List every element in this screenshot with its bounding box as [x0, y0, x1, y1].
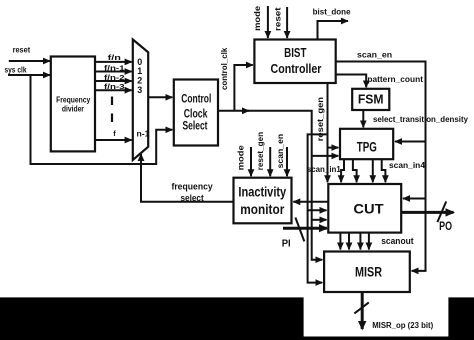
- wire mode stub into Inactivity monitor: [250, 147, 252, 176]
- redaction strip bottom: [0, 337, 474, 340]
- wire reset_gen branch left rail: [308, 134, 328, 282]
- wire CUT tap to Inactivity monitor: [293, 201, 328, 203]
- svg-text:CUT: CUT: [353, 201, 384, 217]
- svg-text:select_transition_density: select_transition_density: [373, 114, 468, 124]
- svg-text:reset_gen: reset_gen: [255, 132, 265, 170]
- wire reset rail branch to CUT: [308, 209, 327, 211]
- svg-text:f/n: f/n: [108, 53, 122, 62]
- svg-text:f/n-3: f/n-3: [104, 82, 125, 91]
- svg-text:mode: mode: [236, 145, 246, 170]
- wire control_clk branch to CUT: [312, 219, 327, 221]
- wire PI bus: [283, 227, 327, 230]
- block Inactivity monitor: [234, 178, 292, 224]
- svg-text:bist_done: bist_done: [313, 7, 351, 17]
- svg-text:Select: Select: [183, 119, 208, 133]
- wire f/n-3: [95, 89, 132, 91]
- svg-text:Inactivity: Inactivity: [238, 184, 286, 199]
- svg-text:MISR_op (23 bit): MISR_op (23 bit): [372, 320, 433, 330]
- wire FSM to TPG select_transition_density: [362, 110, 364, 127]
- wire f: [95, 139, 132, 141]
- wire scan_en stub into Inactivity monitor: [286, 147, 288, 176]
- wire f/n: [95, 61, 132, 63]
- block MISR: [324, 252, 410, 293]
- wire TPG scan chain 1: [341, 159, 344, 182]
- wire mux output to Control Clock Select: [148, 96, 172, 98]
- wire scanout chain 3: [359, 233, 361, 250]
- dashed continuation line: [111, 97, 113, 126]
- wire MISR_op output bus: [361, 292, 364, 329]
- multiplexer MUX: [133, 40, 150, 161]
- block FSM: [352, 89, 389, 110]
- wire TPG scan chain 3: [372, 159, 374, 182]
- svg-text:Control: Control: [181, 92, 211, 106]
- svg-text:MISR: MISR: [355, 264, 382, 279]
- wire scan_en branch to TPG: [395, 141, 426, 143]
- wire scanout chain 1: [339, 233, 341, 250]
- svg-text:pattern_count: pattern_count: [367, 74, 423, 84]
- block Frequency divider: [51, 57, 95, 152]
- svg-text:control_clk: control_clk: [219, 47, 229, 90]
- svg-text:scan_in4: scan_in4: [389, 161, 426, 170]
- svg-text:scan_en: scan_en: [357, 50, 392, 60]
- wire control_clk branch to TPG: [312, 155, 339, 157]
- block TPG: [340, 129, 393, 159]
- svg-text:Controller: Controller: [271, 61, 322, 76]
- wire TPG scan chain 2: [353, 159, 357, 182]
- svg-text:f/n-2: f/n-2: [104, 73, 125, 82]
- svg-text:scan_in1: scan_in1: [307, 165, 342, 174]
- svg-text:scan_en: scan_en: [275, 134, 285, 169]
- svg-text:frequency: frequency: [171, 182, 213, 193]
- wire PO bus: [401, 211, 453, 214]
- redaction bar left: [0, 297, 304, 340]
- svg-text:f: f: [113, 129, 116, 138]
- wire scan_en branch to CUT: [403, 198, 426, 200]
- svg-text:PI: PI: [282, 237, 291, 249]
- svg-text:mode: mode: [252, 6, 262, 31]
- wire scanout chain 2: [348, 233, 350, 250]
- svg-text:reset: reset: [273, 7, 283, 31]
- wire pattern_count: [336, 75, 367, 88]
- wire sys clk input: [8, 74, 50, 76]
- PI bus slash: [295, 218, 304, 242]
- svg-text:f/n-1: f/n-1: [104, 63, 125, 72]
- wire TPG scan chain 4: [382, 159, 386, 182]
- MISR_op bus slash: [354, 302, 368, 313]
- svg-text:scanout: scanout: [381, 236, 413, 246]
- wire frequency select: [141, 154, 234, 202]
- svg-text:TPG: TPG: [357, 139, 377, 154]
- svg-text:3: 3: [137, 85, 142, 96]
- wire reset_gen: [327, 83, 329, 182]
- wire f/n-2: [95, 80, 132, 82]
- wire f/n-1: [95, 71, 132, 73]
- svg-text:monitor: monitor: [240, 202, 285, 217]
- redaction bar right: [448, 297, 474, 340]
- wire scanout chain 4: [368, 233, 370, 250]
- svg-text:select: select: [180, 193, 204, 204]
- svg-text:BIST: BIST: [284, 45, 306, 60]
- block CUT: [328, 184, 401, 233]
- block BIST Controller: [254, 40, 335, 84]
- block Control Clock Select: [174, 80, 218, 146]
- svg-text:Frequency: Frequency: [56, 95, 90, 104]
- svg-text:sys clk: sys clk: [4, 65, 26, 74]
- svg-text:FSM: FSM: [358, 92, 384, 107]
- PO bus slash: [437, 202, 446, 223]
- wire reset input: [9, 60, 50, 62]
- wire bist_done: [318, 21, 349, 40]
- wire control_clk: [218, 111, 322, 260]
- wire mode stub into BIST Controller: [267, 6, 269, 38]
- wire control_clk branch to BIST Controller: [234, 65, 252, 111]
- svg-text:divider: divider: [62, 105, 85, 114]
- wire reset_gen stub into Inactivity monitor: [269, 147, 271, 176]
- svg-text:reset: reset: [13, 45, 31, 54]
- wire reset_gen branch to TPG: [328, 147, 339, 149]
- wire scan_en: [336, 62, 426, 271]
- wire sys clk bypass to Control Clock Select: [31, 76, 173, 164]
- svg-text:n-1: n-1: [137, 129, 150, 139]
- svg-text:PO: PO: [439, 219, 452, 233]
- wire reset stub into BIST Controller: [286, 7, 288, 38]
